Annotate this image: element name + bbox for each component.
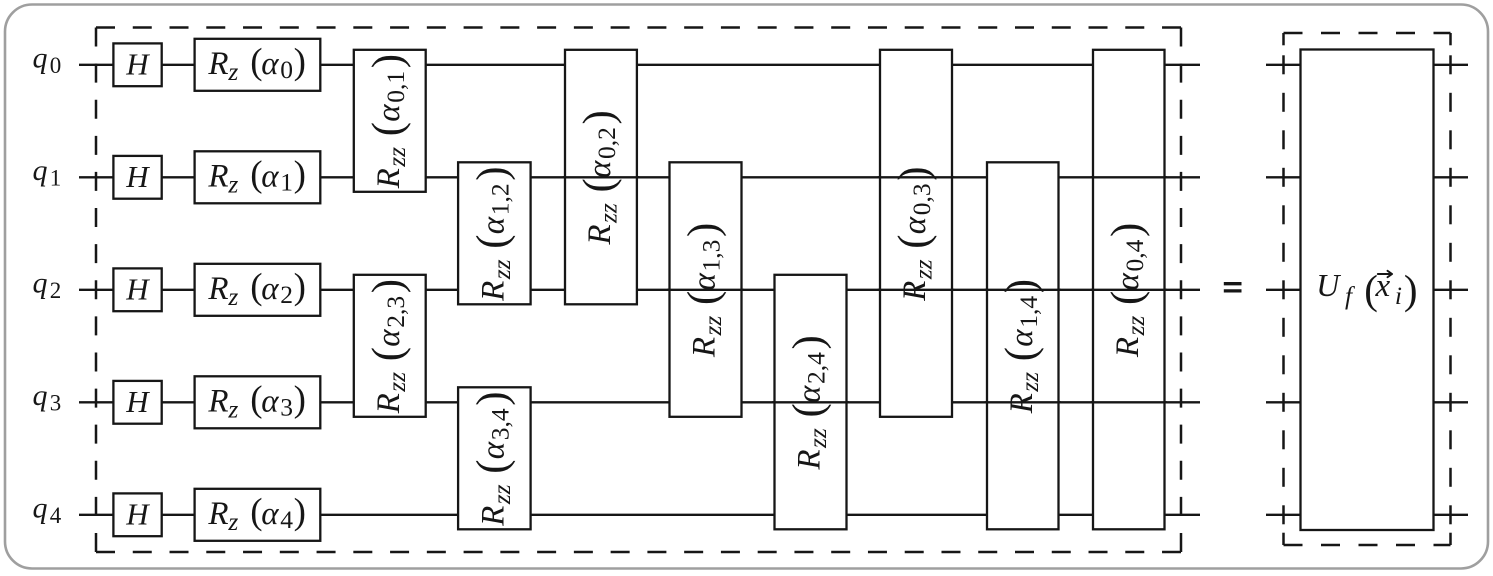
svg-text:α: α — [897, 216, 933, 234]
svg-text:2: 2 — [280, 280, 293, 309]
svg-text:R: R — [475, 281, 511, 302]
svg-text:H: H — [125, 159, 150, 194]
svg-text:2: 2 — [50, 278, 62, 303]
svg-text:H: H — [125, 384, 150, 419]
svg-text:): ) — [364, 279, 411, 293]
svg-text:1,3: 1,3 — [697, 240, 726, 272]
svg-text:): ) — [891, 166, 938, 180]
svg-text:4: 4 — [280, 505, 293, 534]
svg-text:3: 3 — [280, 393, 293, 422]
svg-text:(: ( — [680, 291, 727, 305]
svg-text:R: R — [687, 337, 723, 358]
svg-text:(: ( — [1103, 291, 1150, 305]
svg-text:4: 4 — [50, 503, 62, 528]
svg-text:zz: zz — [593, 203, 622, 224]
svg-text:): ) — [294, 379, 306, 420]
svg-text:z: z — [227, 170, 238, 199]
svg-text:R: R — [207, 383, 228, 419]
svg-text:): ) — [294, 491, 306, 532]
svg-text:(: ( — [364, 347, 411, 361]
svg-text:z: z — [227, 507, 238, 536]
svg-text:): ) — [469, 391, 516, 405]
svg-text:α: α — [687, 273, 723, 291]
svg-text:α: α — [475, 216, 511, 234]
svg-text:R: R — [792, 449, 828, 470]
svg-text:): ) — [1404, 267, 1418, 313]
svg-text:α: α — [792, 385, 828, 403]
svg-text:0,4: 0,4 — [1120, 239, 1149, 271]
svg-text:zz: zz — [803, 428, 832, 449]
svg-text:1,2: 1,2 — [485, 183, 514, 215]
svg-text:2,3: 2,3 — [381, 296, 410, 328]
svg-text:): ) — [785, 335, 832, 349]
svg-text:R: R — [207, 496, 228, 532]
svg-text:α: α — [261, 496, 279, 532]
svg-text:): ) — [997, 279, 1044, 293]
svg-text:R: R — [207, 158, 228, 194]
svg-text:zz: zz — [487, 259, 516, 280]
svg-text:(: ( — [469, 459, 516, 473]
svg-text:α: α — [261, 158, 279, 194]
svg-text:R: R — [1004, 393, 1040, 414]
svg-text:R: R — [207, 271, 228, 307]
svg-text:H: H — [125, 496, 150, 531]
svg-text:R: R — [582, 224, 618, 245]
svg-text:(: ( — [785, 403, 832, 417]
svg-text:i: i — [1395, 281, 1402, 310]
svg-text:(: ( — [364, 122, 411, 136]
svg-text:zz: zz — [1121, 316, 1150, 337]
svg-text:α: α — [261, 271, 279, 307]
svg-text:0: 0 — [280, 55, 293, 84]
svg-text:zz: zz — [382, 147, 411, 168]
svg-text:α: α — [261, 46, 279, 82]
svg-text:α: α — [1110, 273, 1146, 291]
svg-text:q: q — [33, 491, 48, 524]
svg-text:): ) — [294, 41, 306, 82]
svg-text:(: ( — [891, 234, 938, 248]
svg-text:2,4: 2,4 — [802, 352, 831, 384]
svg-text:zz: zz — [698, 316, 727, 337]
svg-text:q: q — [33, 379, 48, 412]
svg-text:R: R — [475, 506, 511, 527]
svg-text:0,3: 0,3 — [907, 183, 936, 215]
svg-text:α: α — [1004, 329, 1040, 347]
svg-text:1: 1 — [280, 168, 293, 197]
svg-text:3,4: 3,4 — [485, 408, 514, 440]
svg-text:z: z — [227, 282, 238, 311]
svg-text:): ) — [1103, 223, 1150, 237]
svg-text:H: H — [125, 46, 150, 81]
svg-text:α: α — [475, 441, 511, 459]
svg-text:1: 1 — [50, 165, 62, 190]
svg-text:H: H — [125, 271, 150, 306]
svg-text:(: ( — [576, 178, 623, 192]
svg-text:α: α — [261, 383, 279, 419]
svg-text:1,4: 1,4 — [1014, 296, 1043, 328]
svg-text:0: 0 — [50, 53, 62, 78]
svg-text:α: α — [371, 104, 407, 122]
svg-text:z: z — [227, 57, 238, 86]
svg-text:): ) — [364, 54, 411, 68]
svg-text:α: α — [371, 329, 407, 347]
svg-text:R: R — [1110, 337, 1146, 358]
svg-text:zz: zz — [1015, 372, 1044, 393]
svg-text:zz: zz — [487, 484, 516, 505]
svg-text:): ) — [294, 154, 306, 195]
svg-text:(: ( — [997, 347, 1044, 361]
svg-text:zz: zz — [908, 259, 937, 280]
svg-text:): ) — [469, 166, 516, 180]
svg-text:R: R — [371, 393, 407, 414]
svg-text:q: q — [33, 266, 48, 299]
svg-text:q: q — [33, 41, 48, 74]
svg-text:(: ( — [469, 234, 516, 248]
svg-text:): ) — [294, 266, 306, 307]
svg-text:R: R — [207, 46, 228, 82]
svg-text:): ) — [576, 110, 623, 124]
svg-text:0,1: 0,1 — [381, 71, 410, 103]
svg-text:): ) — [680, 223, 727, 237]
svg-text:R: R — [371, 168, 407, 189]
svg-text:α: α — [582, 160, 618, 178]
svg-text:zz: zz — [382, 372, 411, 393]
svg-text:q: q — [33, 154, 48, 187]
svg-text:R: R — [897, 281, 933, 302]
svg-text:3: 3 — [50, 390, 62, 415]
svg-text:z: z — [227, 395, 238, 424]
svg-text:U: U — [1316, 267, 1341, 303]
svg-text:0,2: 0,2 — [592, 127, 621, 159]
